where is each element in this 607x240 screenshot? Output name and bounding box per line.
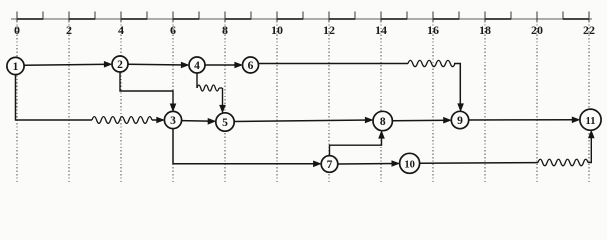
arrow edge 7-8 elbow bbox=[330, 130, 385, 156]
ruler tick marks bbox=[17, 12, 589, 22]
node 10 bbox=[400, 153, 420, 173]
arrow edge 4-5 with float squiggle bbox=[197, 73, 226, 114]
svg-text:2: 2 bbox=[117, 59, 123, 71]
node 6 bbox=[243, 57, 259, 73]
node 8 bbox=[373, 111, 392, 130]
svg-text:0: 0 bbox=[14, 23, 20, 37]
vertical dotted gridlines at even times bbox=[17, 21, 589, 183]
svg-text:9: 9 bbox=[457, 115, 463, 127]
arrow edge 7-10 bbox=[338, 160, 400, 167]
node 11 bbox=[580, 109, 601, 130]
arrow edge 9-11 bbox=[469, 117, 581, 124]
svg-text:6: 6 bbox=[248, 60, 254, 72]
node 1 bbox=[7, 57, 24, 74]
ruler alternating dark unit segments bbox=[17, 18, 589, 20]
svg-text:10: 10 bbox=[404, 159, 415, 170]
arrow edge 6-9 with float squiggle bbox=[259, 60, 464, 112]
svg-text:12: 12 bbox=[323, 23, 335, 37]
node 9 bbox=[451, 111, 468, 128]
svg-text:10: 10 bbox=[271, 23, 283, 37]
svg-text:4: 4 bbox=[194, 60, 200, 72]
svg-text:11: 11 bbox=[586, 116, 596, 127]
arrow edge 8-9 bbox=[392, 117, 451, 124]
svg-text:8: 8 bbox=[222, 23, 228, 37]
svg-text:5: 5 bbox=[222, 117, 228, 129]
arrow edge 10-11 with float squiggle bbox=[420, 130, 595, 166]
svg-text:7: 7 bbox=[327, 159, 333, 171]
arrow edge 2-3 elbow bbox=[120, 72, 176, 112]
arrow edge 3-5 bbox=[182, 118, 217, 125]
svg-text:8: 8 bbox=[380, 116, 386, 128]
node 2 bbox=[112, 56, 128, 72]
svg-text:6: 6 bbox=[170, 23, 176, 37]
svg-text:20: 20 bbox=[531, 23, 543, 37]
svg-text:3: 3 bbox=[170, 115, 176, 127]
arrow edge 1-2 bbox=[24, 61, 112, 68]
arrow edge 5-8 bbox=[234, 117, 373, 124]
node 4 bbox=[189, 57, 205, 73]
svg-text:18: 18 bbox=[479, 23, 491, 37]
svg-text:2: 2 bbox=[66, 23, 72, 37]
arrow edge 4-6 bbox=[205, 62, 243, 69]
svg-text:4: 4 bbox=[118, 23, 124, 37]
arrow edge 1-3 with float squiggle bbox=[16, 75, 165, 124]
ruler scale numbers 0-22 bbox=[14, 23, 595, 37]
svg-text:1: 1 bbox=[13, 61, 19, 73]
svg-text:22: 22 bbox=[583, 23, 595, 37]
time-scale ruler baseline bbox=[11, 18, 592, 20]
svg-text:14: 14 bbox=[375, 23, 387, 37]
node 5 bbox=[216, 113, 234, 131]
arrow edge 3-7 elbow bbox=[173, 129, 322, 168]
node 3 bbox=[164, 111, 181, 128]
node 7 bbox=[321, 156, 338, 173]
svg-text:16: 16 bbox=[427, 23, 439, 37]
arrow edge 2-4 bbox=[128, 62, 190, 69]
